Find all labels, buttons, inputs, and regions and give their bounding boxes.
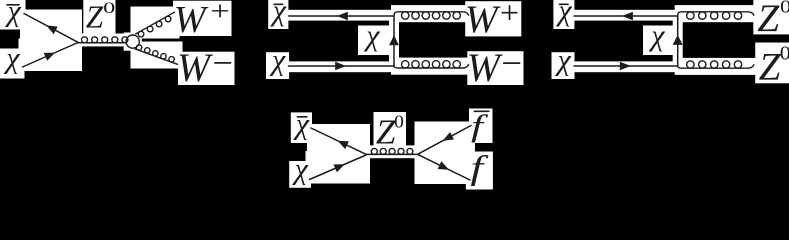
svg-text:+: +	[500, 0, 519, 31]
vertex curl D1	[126, 35, 139, 48]
boson W- curly line D1	[135, 49, 178, 65]
svg-text:χ: χ	[555, 0, 572, 27]
bar of chibar D4	[297, 116, 306, 118]
svg-text:Z: Z	[759, 46, 781, 89]
propagator chi vertical line D3	[677, 16, 679, 66]
svg-text:W: W	[177, 46, 214, 90]
boson Z0 curly line top D3	[678, 12, 754, 16]
white element-background boxes	[0, 0, 789, 190]
label minus sign of W- D1	[215, 62, 231, 64]
wire: outgoing fbar line D4	[419, 126, 472, 154]
svg-text:χ: χ	[363, 19, 380, 52]
wire: incoming chibar line D4	[311, 128, 366, 154]
wire: outgoing f line D4	[419, 155, 471, 180]
svg-text:Z: Z	[376, 112, 396, 151]
wire: incoming chibar line D1	[24, 14, 78, 43]
svg-text:+: +	[210, 0, 230, 26]
svg-text:χ: χ	[292, 152, 309, 185]
propagator chi vertical line D2	[393, 16, 395, 66]
svg-text:W: W	[465, 0, 501, 41]
bar of fbar D4	[474, 110, 488, 112]
arrow on chibar line D1 (points up-left)	[46, 25, 57, 34]
boson W- curly line D2	[394, 65, 469, 68]
wire: chibar horizontal line D2	[289, 15, 395, 17]
boson Z0 propagator coil D4	[366, 153, 419, 155]
wire: incoming chi line D1	[23, 43, 79, 68]
arrow on fbar line D4 (points to vertex)	[443, 132, 454, 141]
svg-text:0: 0	[103, 0, 115, 17]
wire: chi horizontal line D2	[289, 65, 395, 67]
arrow on chibar line D4 (points up-left)	[338, 141, 349, 149]
wire: chi horizontal line D3	[574, 65, 678, 67]
svg-text:W: W	[467, 46, 504, 90]
svg-text:0: 0	[780, 42, 789, 64]
arrow left on top line D2	[337, 12, 348, 20]
wire: incoming chi line D4	[310, 155, 367, 180]
svg-text:χ: χ	[555, 44, 572, 77]
svg-text:χ: χ	[270, 0, 287, 27]
svg-text:Z: Z	[86, 0, 104, 34]
wire: chibar horizontal line D3	[574, 15, 678, 17]
svg-text:0: 0	[394, 112, 404, 132]
svg-text:0: 0	[780, 0, 789, 17]
arrow on f line D4 (points outward)	[438, 161, 449, 170]
arrow left on top line D3	[622, 12, 633, 20]
svg-text:χ: χ	[5, 0, 22, 27]
boson Z0 curly line bottom D3	[678, 65, 754, 68]
arrow right on bottom line D3	[620, 62, 631, 70]
svg-text:W: W	[174, 0, 209, 41]
boson Z0 propagator coil D1	[78, 42, 126, 44]
boson W+ curly line D1	[136, 12, 175, 34]
svg-text:χ: χ	[3, 41, 20, 74]
label minus sign of W- D2	[504, 62, 520, 64]
boson W+ curly line D2	[394, 12, 469, 16]
bar of chibar D1	[7, 4, 19, 6]
bar of chibar D2	[274, 3, 283, 5]
arrow on chi line D1 (points to vertex)	[44, 53, 55, 61]
arrow on chi line D4 (points to vertex)	[334, 164, 345, 172]
bar of chibar D3	[560, 3, 569, 5]
svg-text:χ: χ	[293, 108, 310, 141]
svg-text:Z: Z	[757, 0, 780, 40]
svg-text:χ: χ	[648, 19, 665, 52]
arrow up on vertical line D2	[389, 35, 399, 45]
arrow right on bottom line D2	[335, 62, 346, 70]
svg-text:χ: χ	[269, 44, 286, 77]
arrow up on vertical line D3	[673, 35, 683, 45]
